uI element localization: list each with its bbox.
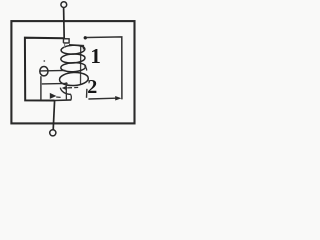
coil top hook	[63, 39, 69, 43]
coil winding 1 turn a	[61, 45, 85, 55]
right loop bottom edge	[88, 97, 115, 100]
turn c right curl	[85, 66, 87, 71]
outer enclosure box	[11, 21, 134, 123]
coil winding 2 bottom partial turn	[60, 88, 70, 95]
wire from top terminal down	[63, 8, 66, 39]
speck above tap	[43, 60, 45, 62]
dashed wiper arrow at coil	[62, 86, 67, 91]
left inner wiring path	[25, 38, 64, 101]
tap lead through circle to coil	[40, 69, 65, 72]
svg-text:1: 1	[90, 44, 101, 68]
svg-text:2: 2	[87, 76, 97, 98]
triangle tail dash	[56, 96, 60, 98]
coil axis segment lower	[65, 82, 67, 100]
coil right lead down	[86, 89, 88, 98]
coil end up-hook	[70, 94, 71, 100]
wire hook to coil right side	[69, 45, 84, 50]
top terminal	[61, 2, 67, 8]
node dot	[84, 36, 87, 39]
coil conductor vertical behind loops	[80, 46, 82, 85]
vertical from tap circle down	[40, 76, 42, 100]
coil winding 2 big turn	[59, 72, 88, 86]
coil winding 1 turn c	[61, 62, 86, 72]
coil winding 1 turn b	[61, 53, 86, 63]
current arrow triangle bottom left	[50, 93, 57, 99]
bottom terminal wire	[53, 100, 54, 129]
right loop rectangle (top and right edges)	[87, 37, 122, 100]
bottom terminal	[50, 130, 56, 136]
branch line to coil	[42, 82, 68, 85]
bottom wire continues under coil	[55, 99, 72, 102]
tap circle	[40, 67, 48, 76]
coil axis segment upper faint	[64, 43, 66, 48]
current arrow right	[115, 96, 121, 101]
